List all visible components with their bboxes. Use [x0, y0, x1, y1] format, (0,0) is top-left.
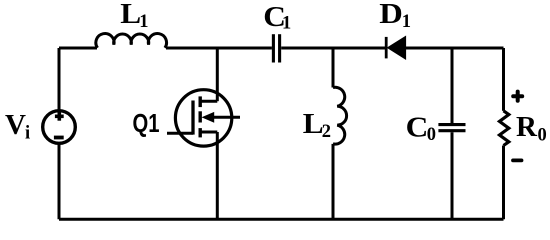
resistor R0 zigzag — [500, 111, 509, 146]
svg-text:C: C — [406, 111, 429, 143]
R0 minus sign — [513, 158, 522, 162]
wire C0 branch bottom — [451, 132, 454, 219]
Q1 channel bottom dash (source) — [198, 128, 201, 137]
wire L2 branch bottom — [332, 144, 335, 219]
source Vi plus — [55, 112, 64, 121]
svg-text:D: D — [379, 0, 403, 30]
svg-text:0: 0 — [427, 125, 436, 145]
Q1 source contact — [200, 131, 217, 134]
wire L2 branch top — [332, 48, 335, 88]
svg-text:R: R — [516, 111, 538, 143]
Q1 gate lead — [167, 132, 193, 135]
svg-text:2: 2 — [322, 122, 331, 142]
diode D1 — [385, 37, 388, 59]
node drain junction wire (drain to top rail) — [216, 48, 219, 101]
wire left branch below source — [58, 143, 61, 219]
svg-text:0: 0 — [538, 126, 547, 146]
svg-text:1: 1 — [139, 12, 148, 32]
Q1 drain contact — [200, 100, 217, 103]
Q1 channel top dash (drain) — [198, 96, 201, 107]
wire top rail C1 to D1 — [281, 47, 385, 50]
wire R0 branch top — [502, 48, 505, 111]
inductor L2 — [333, 87, 347, 144]
source Vi circle — [43, 111, 76, 144]
wire top rail L1 to C1 — [166, 47, 272, 50]
Q1 source wire down — [216, 132, 219, 219]
svg-text:Q1: Q1 — [133, 110, 160, 138]
wire top rail left segment (Vi corner to L1) — [59, 47, 97, 50]
wire left branch above source — [58, 48, 61, 111]
svg-text:1: 1 — [402, 12, 411, 32]
Q1 body arrow — [203, 113, 214, 122]
capacitor C1 — [273, 34, 279, 62]
svg-text:L: L — [303, 108, 324, 140]
wire C0 branch top — [451, 48, 454, 123]
wire top rail D1 to right corner — [406, 47, 504, 50]
capacitor C0 — [438, 125, 465, 131]
Q1 body line — [211, 116, 240, 119]
Q1 channel middle dash (body) — [198, 111, 201, 122]
Q1 gate bar — [191, 101, 194, 135]
wire R0 branch bottom — [502, 146, 505, 220]
inductor L1 — [96, 34, 167, 48]
source Vi minus — [54, 136, 64, 140]
svg-text:1: 1 — [282, 14, 291, 34]
svg-text:V: V — [5, 109, 26, 141]
transistor Q1 MOSFET circle — [175, 90, 231, 146]
svg-text:i: i — [25, 124, 30, 144]
R0 plus sign — [513, 92, 522, 101]
svg-text:L: L — [120, 0, 141, 30]
wire bottom rail — [59, 218, 504, 221]
